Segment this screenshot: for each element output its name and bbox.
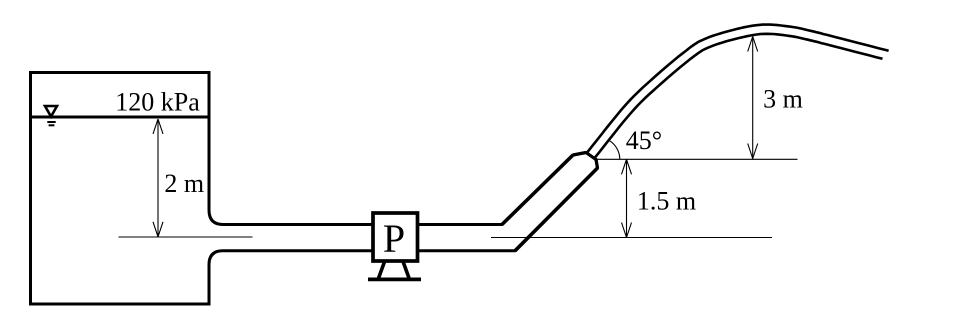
pump stand right leg — [403, 262, 409, 278]
free surface marker triangle — [45, 106, 57, 117]
svg-text:45°: 45° — [626, 126, 662, 155]
nozzle-level reference line — [598, 158, 798, 160]
2 m dimension line — [157, 119, 159, 237]
jet trajectory lower boundary — [594, 34, 882, 159]
pipe-level datum line (1.5 m reference) — [491, 237, 772, 239]
inclined pipe upper wall — [502, 155, 573, 225]
tank walls and pipe outline — [31, 73, 598, 305]
pump box — [373, 213, 418, 261]
svg-text:2 m: 2 m — [164, 169, 204, 198]
pump stand base bar — [368, 277, 421, 281]
water surface line — [31, 116, 210, 119]
svg-text:1.5 m: 1.5 m — [637, 186, 696, 215]
svg-text:120 kPa: 120 kPa — [115, 88, 200, 117]
svg-text:P: P — [383, 216, 405, 261]
centerline datum inside tank (2 m reference) — [119, 236, 253, 238]
free surface marker dash 2 — [49, 124, 55, 126]
pump stand left leg — [379, 262, 385, 278]
jet trajectory upper boundary — [587, 25, 889, 153]
free surface marker dash 1 — [47, 121, 55, 123]
inclined pipe lower wall — [515, 168, 598, 251]
nozzle tip face — [586, 153, 598, 169]
svg-text:3 m: 3 m — [763, 84, 803, 113]
45 degree angle arc — [610, 141, 620, 160]
nozzle taper edge — [573, 153, 586, 156]
3 m dimension line — [752, 37, 754, 160]
1.5 m dimension line — [626, 159, 628, 237]
